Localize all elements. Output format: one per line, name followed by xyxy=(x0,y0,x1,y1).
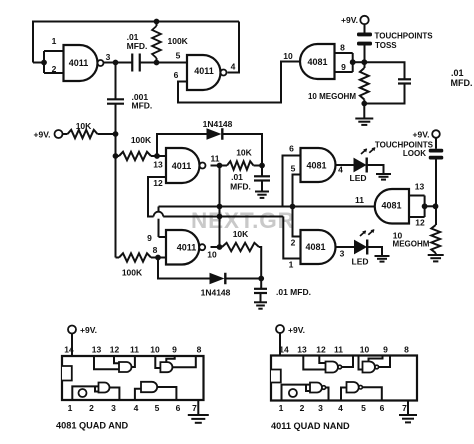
IC1 +9V terminal xyxy=(68,326,76,334)
resistor R5 10K xyxy=(211,246,223,248)
svg-text:4081: 4081 xyxy=(305,242,325,252)
wire pins 8-9 bracket xyxy=(335,52,353,54)
svg-text:8: 8 xyxy=(153,245,158,255)
svg-text:11: 11 xyxy=(355,195,364,205)
IC2 gate C xyxy=(363,362,376,373)
op-gate U2a 4081 AND xyxy=(301,148,336,182)
node junction 100K bottom xyxy=(154,60,160,66)
ground R8 xyxy=(435,253,437,255)
svg-text:9: 9 xyxy=(383,345,388,355)
node output 11 xyxy=(217,163,223,169)
wire pin8 drop to diode D2 xyxy=(158,258,210,279)
svg-text:3: 3 xyxy=(106,52,111,62)
node look rail xyxy=(433,203,439,209)
svg-text:1: 1 xyxy=(52,36,57,46)
svg-text:4: 4 xyxy=(231,62,236,72)
svg-text:MEGOHM: MEGOHM xyxy=(393,240,430,249)
svg-text:13: 13 xyxy=(415,182,425,192)
svg-text:MFD.: MFD. xyxy=(230,182,251,192)
svg-text:13: 13 xyxy=(153,160,163,170)
wire bus B to pin 1 xyxy=(283,217,300,259)
IC2 notch xyxy=(271,370,281,383)
wire bus B xyxy=(163,216,283,218)
svg-text:4011: 4011 xyxy=(69,58,89,68)
node bus A pins 5-2 xyxy=(290,204,296,210)
IC2 gate B wiring xyxy=(341,388,347,401)
svg-text:6: 6 xyxy=(174,70,179,80)
wire pins 13-12 bracket xyxy=(409,195,425,197)
IC1 ground pin 7 xyxy=(197,400,199,415)
svg-text:+9V.: +9V. xyxy=(34,130,51,140)
op-gate U1b 4011 NAND xyxy=(187,55,221,90)
svg-text:4081: 4081 xyxy=(306,161,326,171)
node pin3 junction xyxy=(113,60,119,66)
node touch rail xyxy=(361,59,367,65)
svg-text:12: 12 xyxy=(110,345,120,355)
wire feedback top xyxy=(33,22,239,63)
svg-text:2: 2 xyxy=(300,403,305,413)
IC1 gate C xyxy=(160,362,172,372)
wire pin13 riser to diode D1 xyxy=(157,134,207,156)
ground LED D3 xyxy=(376,173,391,175)
svg-text:4081: 4081 xyxy=(307,57,327,67)
svg-text:12: 12 xyxy=(153,178,163,188)
op-gate U2d 4081 AND mirrored xyxy=(375,189,409,224)
node junction R4 C3 xyxy=(259,163,265,169)
svg-text:100K: 100K xyxy=(168,36,189,46)
svg-text:3: 3 xyxy=(340,249,345,259)
svg-text:LED: LED xyxy=(352,257,369,267)
svg-text:10: 10 xyxy=(150,345,160,355)
wire output 11 xyxy=(211,165,228,167)
ground C5 xyxy=(254,301,267,303)
svg-text:+9V.: +9V. xyxy=(288,325,305,335)
svg-text:5: 5 xyxy=(361,403,366,413)
ground C3 xyxy=(255,191,269,193)
svg-text:+9V.: +9V. xyxy=(80,325,97,335)
svg-text:4: 4 xyxy=(134,403,139,413)
wire gate1 input bracket xyxy=(33,62,44,64)
svg-text:13: 13 xyxy=(92,345,102,355)
IC1 gate D xyxy=(119,362,132,372)
resistor R2 10K xyxy=(68,130,98,138)
svg-text:TOUCHPOINTS: TOUCHPOINTS xyxy=(375,32,434,41)
IC2 ground pin 7 xyxy=(407,401,409,416)
svg-text:10: 10 xyxy=(360,345,370,355)
svg-text:LED: LED xyxy=(350,173,367,183)
svg-text:100K: 100K xyxy=(131,135,152,145)
IC1 body xyxy=(62,356,204,400)
svg-text:1N4148: 1N4148 xyxy=(201,288,231,298)
capacitor C4 .01 MFD parallel xyxy=(364,62,404,79)
svg-text:10: 10 xyxy=(207,250,217,260)
IC2 gate A xyxy=(310,383,322,393)
svg-text:9: 9 xyxy=(147,233,152,243)
svg-text:10K: 10K xyxy=(233,229,249,239)
IC1 gate A xyxy=(99,383,110,393)
LED D4 xyxy=(355,241,367,254)
op-gate U2c 4081 AND xyxy=(301,230,336,264)
wire to ground xyxy=(363,104,365,119)
node bus B out10 xyxy=(217,214,223,220)
svg-text:10K: 10K xyxy=(236,148,252,158)
touchpoints TOSS bars xyxy=(357,33,372,37)
svg-text:100K: 100K xyxy=(122,268,143,278)
svg-text:4011: 4011 xyxy=(177,243,197,253)
node bracket look xyxy=(422,203,428,209)
wire pin3 output xyxy=(104,62,133,64)
wire cross-link vertical xyxy=(219,166,221,248)
IC2 pin1 marker circle xyxy=(289,389,297,397)
diode D1 1N4148 xyxy=(207,128,222,140)
svg-text:5: 5 xyxy=(155,403,160,413)
svg-text:TOSS: TOSS xyxy=(375,41,397,50)
svg-text:12: 12 xyxy=(316,345,326,355)
svg-text:14: 14 xyxy=(279,345,289,355)
svg-text:11: 11 xyxy=(334,345,343,355)
resistor R3 100K to pin13 xyxy=(119,152,151,160)
svg-text:1N4148: 1N4148 xyxy=(203,119,233,129)
wire vertical left rail xyxy=(115,134,117,258)
svg-text:MFD.: MFD. xyxy=(132,101,153,111)
svg-text:+9V.: +9V. xyxy=(341,15,358,25)
svg-text:14: 14 xyxy=(64,345,74,355)
svg-text:1: 1 xyxy=(289,260,294,270)
IC1 notch xyxy=(62,366,72,381)
svg-text:7: 7 xyxy=(192,403,197,413)
svg-text:5: 5 xyxy=(176,51,181,61)
svg-text:.01: .01 xyxy=(231,172,243,182)
capacitor C3 .01 MFD xyxy=(261,166,263,177)
node junction D2 C5 xyxy=(258,276,264,282)
IC1 gate B wiring xyxy=(135,389,141,400)
svg-text:4011 QUAD NAND: 4011 QUAD NAND xyxy=(271,421,350,431)
wire pin4 feedback to top xyxy=(228,22,240,73)
IC1 gate C wiring xyxy=(155,356,160,368)
svg-text:4081 QUAD AND: 4081 QUAD AND xyxy=(56,421,129,431)
svg-text:+9V.: +9V. xyxy=(413,130,430,140)
svg-text:11: 11 xyxy=(211,154,220,164)
svg-text:10 MEGOHM: 10 MEGOHM xyxy=(308,92,356,101)
svg-text:11: 11 xyxy=(130,345,139,355)
svg-text:MFD.: MFD. xyxy=(451,78,473,88)
wire C1 to pin5 xyxy=(140,62,187,64)
IC2 gate D xyxy=(326,362,339,373)
svg-text:8: 8 xyxy=(197,345,202,355)
IC2 gate D wiring xyxy=(303,356,325,370)
svg-text:4081: 4081 xyxy=(381,201,401,211)
node junction 100K R3 xyxy=(113,153,119,159)
svg-text:10: 10 xyxy=(283,51,293,61)
wire LED2 to ground xyxy=(367,247,382,256)
svg-text:4: 4 xyxy=(338,403,343,413)
svg-text:9: 9 xyxy=(172,345,177,355)
wire LED to ground xyxy=(367,165,384,174)
diode D2 1N4148 xyxy=(210,273,225,285)
svg-text:LOOK: LOOK xyxy=(403,149,426,158)
IC1 pin1 marker circle xyxy=(79,389,87,397)
svg-text:2: 2 xyxy=(52,64,57,74)
IC2 +9V terminal xyxy=(276,325,284,333)
node junction top of 100K R1 xyxy=(154,19,160,25)
svg-text:6: 6 xyxy=(380,403,385,413)
resistor R4 10K xyxy=(227,161,254,169)
op-gate U1d 4011 NAND xyxy=(166,230,199,265)
svg-text:5: 5 xyxy=(291,164,296,174)
node output 10 xyxy=(217,244,223,250)
wire pin 12 to bus B xyxy=(148,177,166,217)
svg-text:9: 9 xyxy=(341,62,346,72)
svg-text:6: 6 xyxy=(176,403,181,413)
IC1 gate A wiring xyxy=(72,386,98,400)
wire pin6 to bus A xyxy=(283,156,301,207)
node bus A out11 xyxy=(217,204,223,210)
op-gate U2b 4081 AND mirrored xyxy=(300,44,334,79)
node junction 10K xyxy=(113,131,119,137)
op-gate U1a 4011 NAND xyxy=(64,45,98,81)
touchpoints LOOK bars xyxy=(429,149,444,153)
svg-text:3: 3 xyxy=(111,403,116,413)
wire output 4 to LED xyxy=(336,164,355,166)
svg-text:8: 8 xyxy=(404,345,409,355)
svg-text:10K: 10K xyxy=(76,121,92,131)
node junction pins 1-2 xyxy=(41,60,47,66)
wire pin6 from 4081 output 10 xyxy=(178,62,301,103)
node bracket xyxy=(350,59,356,65)
capacitor C5 .01 MFD xyxy=(260,279,262,289)
svg-text:1: 1 xyxy=(279,403,284,413)
svg-text:7: 7 xyxy=(402,403,407,413)
svg-text:6: 6 xyxy=(289,144,294,154)
resistor R7 10 MEGOHM xyxy=(360,68,369,100)
node junction pin13 xyxy=(154,153,160,159)
svg-text:12: 12 xyxy=(415,218,425,228)
node R7 bottom xyxy=(361,101,367,107)
svg-text:8: 8 xyxy=(340,43,345,53)
wire output 3 to LED xyxy=(336,246,355,248)
IC2 gate A wiring xyxy=(282,385,311,401)
wire pin5 pin2 link xyxy=(293,175,301,237)
svg-text:MFD.: MFD. xyxy=(127,41,148,51)
svg-text:.01 MFD.: .01 MFD. xyxy=(276,287,311,297)
wire bus A xyxy=(159,236,167,238)
resistor R6 100K lower xyxy=(116,257,120,259)
svg-text:3: 3 xyxy=(318,403,323,413)
svg-text:4011: 4011 xyxy=(194,66,214,76)
wire bus B hop over pin9 wire xyxy=(154,212,164,217)
IC1 gate B xyxy=(141,382,157,392)
svg-text:4011: 4011 xyxy=(172,161,192,171)
IC2 body xyxy=(271,356,417,401)
resistor R8 10 MEGOHM xyxy=(431,225,440,253)
ground touch toss xyxy=(355,118,373,120)
resistor R1 100K vertical xyxy=(152,26,161,58)
ground LED D4 xyxy=(375,255,390,257)
op-gate U1c 4011 NAND xyxy=(166,148,200,183)
node junction pin8 xyxy=(155,255,161,261)
svg-text:2: 2 xyxy=(291,238,296,248)
svg-text:13: 13 xyxy=(297,345,307,355)
capacitor C2 .001 MFD branch xyxy=(115,63,117,100)
IC1 gate D wiring xyxy=(94,356,119,369)
svg-text:2: 2 xyxy=(89,403,94,413)
IC2 gate C wiring xyxy=(359,356,363,370)
IC2 gate B xyxy=(347,382,359,393)
svg-text:.01: .01 xyxy=(451,68,464,78)
svg-text:1: 1 xyxy=(68,403,73,413)
capacitor C1 .01 MFD xyxy=(131,54,133,72)
LED D3 xyxy=(354,159,366,172)
